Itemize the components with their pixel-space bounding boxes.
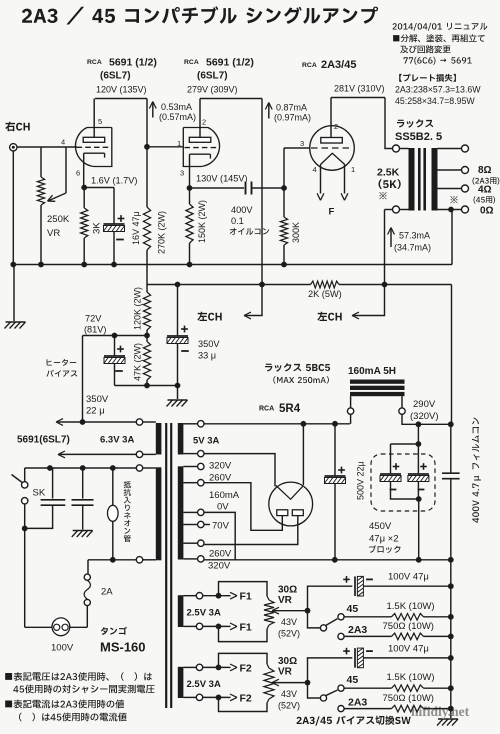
svg-text:45: 45: [347, 603, 359, 615]
svg-text:2K (5W): 2K (5W): [308, 289, 342, 299]
svg-text:SK: SK: [33, 488, 46, 499]
svg-text:260V: 260V: [209, 549, 232, 560]
svg-text:1.5K (10W): 1.5K (10W): [387, 601, 435, 612]
svg-text:5V 3A: 5V 3A: [193, 436, 220, 447]
svg-text:160mA 5H: 160mA 5H: [348, 366, 396, 377]
svg-text:(320V): (320V): [410, 411, 439, 422]
svg-text:F1: F1: [240, 621, 252, 633]
svg-text:47K (2W): 47K (2W): [133, 343, 143, 381]
svg-text:(81V): (81V): [84, 325, 106, 335]
svg-text:2.5K: 2.5K: [377, 167, 400, 179]
svg-text:16V 47μ: 16V 47μ: [131, 211, 141, 245]
svg-text:260V: 260V: [209, 473, 232, 484]
svg-text:VR: VR: [47, 228, 60, 239]
svg-text:30Ω: 30Ω: [278, 656, 297, 667]
svg-text:3K: 3K: [92, 222, 103, 234]
svg-text:0.1: 0.1: [231, 216, 244, 226]
svg-text:45: 45: [347, 674, 359, 686]
svg-text:VR: VR: [278, 667, 293, 678]
svg-text:350V: 350V: [86, 394, 109, 405]
svg-text:(0.57mA): (0.57mA): [159, 112, 196, 122]
svg-text:43V: 43V: [281, 689, 297, 699]
svg-text:1: 1: [177, 139, 181, 148]
svg-text:320V: 320V: [208, 561, 231, 572]
svg-text:VR: VR: [278, 595, 293, 606]
svg-text:290V: 290V: [413, 399, 436, 410]
svg-text:45:258×34.7=8.95W: 45:258×34.7=8.95W: [395, 96, 475, 106]
svg-text:5691 (1/2): 5691 (1/2): [206, 57, 254, 69]
svg-text:5R4: 5R4: [279, 403, 301, 415]
svg-text:0.53mA: 0.53mA: [161, 102, 192, 112]
svg-text:300K: 300K: [291, 222, 301, 243]
svg-text:2: 2: [334, 122, 338, 131]
svg-text:750Ω (10W): 750Ω (10W): [383, 693, 434, 704]
svg-text:279V (309V): 279V (309V): [187, 85, 238, 95]
svg-text:2A: 2A: [101, 587, 113, 598]
svg-text:5691 (1/2): 5691 (1/2): [109, 57, 157, 69]
svg-text:(52V): (52V): [278, 700, 300, 710]
svg-text:120V (135V): 120V (135V): [96, 85, 147, 95]
svg-text:43V: 43V: [281, 617, 297, 627]
svg-text:SS5B2. 5: SS5B2. 5: [395, 131, 442, 143]
svg-text:3: 3: [300, 139, 304, 148]
svg-text:F: F: [329, 207, 335, 218]
svg-text:1.5K (10W): 1.5K (10W): [387, 672, 435, 683]
svg-text:270K (2W): 270K (2W): [157, 211, 167, 254]
svg-text:(52V): (52V): [278, 629, 300, 639]
svg-text:F1: F1: [240, 591, 252, 603]
svg-text:33 μ: 33 μ: [198, 351, 216, 361]
svg-text:6.3V 3A: 6.3V 3A: [100, 435, 134, 446]
svg-text:RCA: RCA: [184, 59, 199, 66]
svg-text:1.6V (1.7V): 1.6V (1.7V): [91, 176, 137, 186]
svg-text:RCA: RCA: [87, 59, 102, 66]
svg-text:4: 4: [313, 165, 317, 174]
svg-text:6: 6: [76, 169, 80, 178]
svg-text:MS-160: MS-160: [100, 640, 146, 655]
svg-text:(0.97mA): (0.97mA): [274, 113, 311, 123]
svg-text:120K (2W): 120K (2W): [133, 287, 143, 330]
svg-text:450V: 450V: [369, 521, 392, 532]
svg-text:RCA: RCA: [259, 406, 274, 413]
svg-text:2A3/45: 2A3/45: [321, 59, 356, 71]
svg-text:(34.7mA): (34.7mA): [394, 243, 431, 253]
svg-text:0.87mA: 0.87mA: [276, 103, 307, 113]
svg-text:1: 1: [351, 165, 355, 174]
svg-text:250K: 250K: [47, 214, 70, 225]
svg-text:30Ω: 30Ω: [278, 584, 297, 595]
svg-text:(6SL7): (6SL7): [197, 71, 228, 82]
svg-text:2: 2: [202, 118, 206, 127]
svg-text:F2: F2: [240, 662, 252, 674]
svg-text:72V: 72V: [85, 314, 102, 324]
svg-text:(6SL7): (6SL7): [100, 71, 131, 82]
svg-text:5: 5: [98, 117, 102, 126]
svg-text:2A3: 2A3: [348, 696, 367, 708]
svg-text:0V: 0V: [217, 502, 229, 513]
svg-text:500V 22μ: 500V 22μ: [356, 461, 366, 500]
svg-text:5691(6SL7): 5691(6SL7): [17, 435, 70, 446]
svg-text:RCA: RCA: [302, 62, 317, 69]
svg-text:281V (310V): 281V (310V): [334, 84, 385, 94]
svg-text:F2: F2: [240, 692, 252, 704]
svg-text:2.5V 3A: 2.5V 3A: [187, 608, 221, 619]
svg-text:0Ω: 0Ω: [480, 206, 494, 217]
svg-text:4: 4: [61, 138, 65, 147]
svg-text:2.5V 3A: 2.5V 3A: [187, 679, 221, 690]
svg-text:130V (145V): 130V (145V): [196, 174, 248, 184]
svg-text:150K (2W): 150K (2W): [197, 200, 207, 243]
svg-text:160mA: 160mA: [209, 490, 240, 501]
svg-text:100V 47μ: 100V 47μ: [388, 643, 429, 654]
svg-text:22 μ: 22 μ: [86, 406, 105, 417]
svg-text:3: 3: [180, 169, 184, 178]
svg-text:4Ω: 4Ω: [478, 185, 492, 196]
svg-text:2A3:238×57.3=13.6W: 2A3:238×57.3=13.6W: [395, 85, 481, 95]
svg-text:8Ω: 8Ω: [478, 165, 492, 176]
svg-text:320V: 320V: [209, 461, 232, 472]
svg-text:100V: 100V: [51, 643, 74, 654]
svg-text:2A3: 2A3: [348, 624, 367, 636]
svg-text:57.3mA: 57.3mA: [399, 231, 430, 241]
svg-text:47μ ×2: 47μ ×2: [369, 534, 399, 545]
svg-text:100V 47μ: 100V 47μ: [388, 572, 429, 583]
svg-text:70V: 70V: [212, 521, 230, 532]
svg-text:400V: 400V: [231, 205, 253, 215]
svg-text:350V: 350V: [198, 339, 220, 349]
svg-text:750Ω (10W): 750Ω (10W): [383, 621, 434, 632]
